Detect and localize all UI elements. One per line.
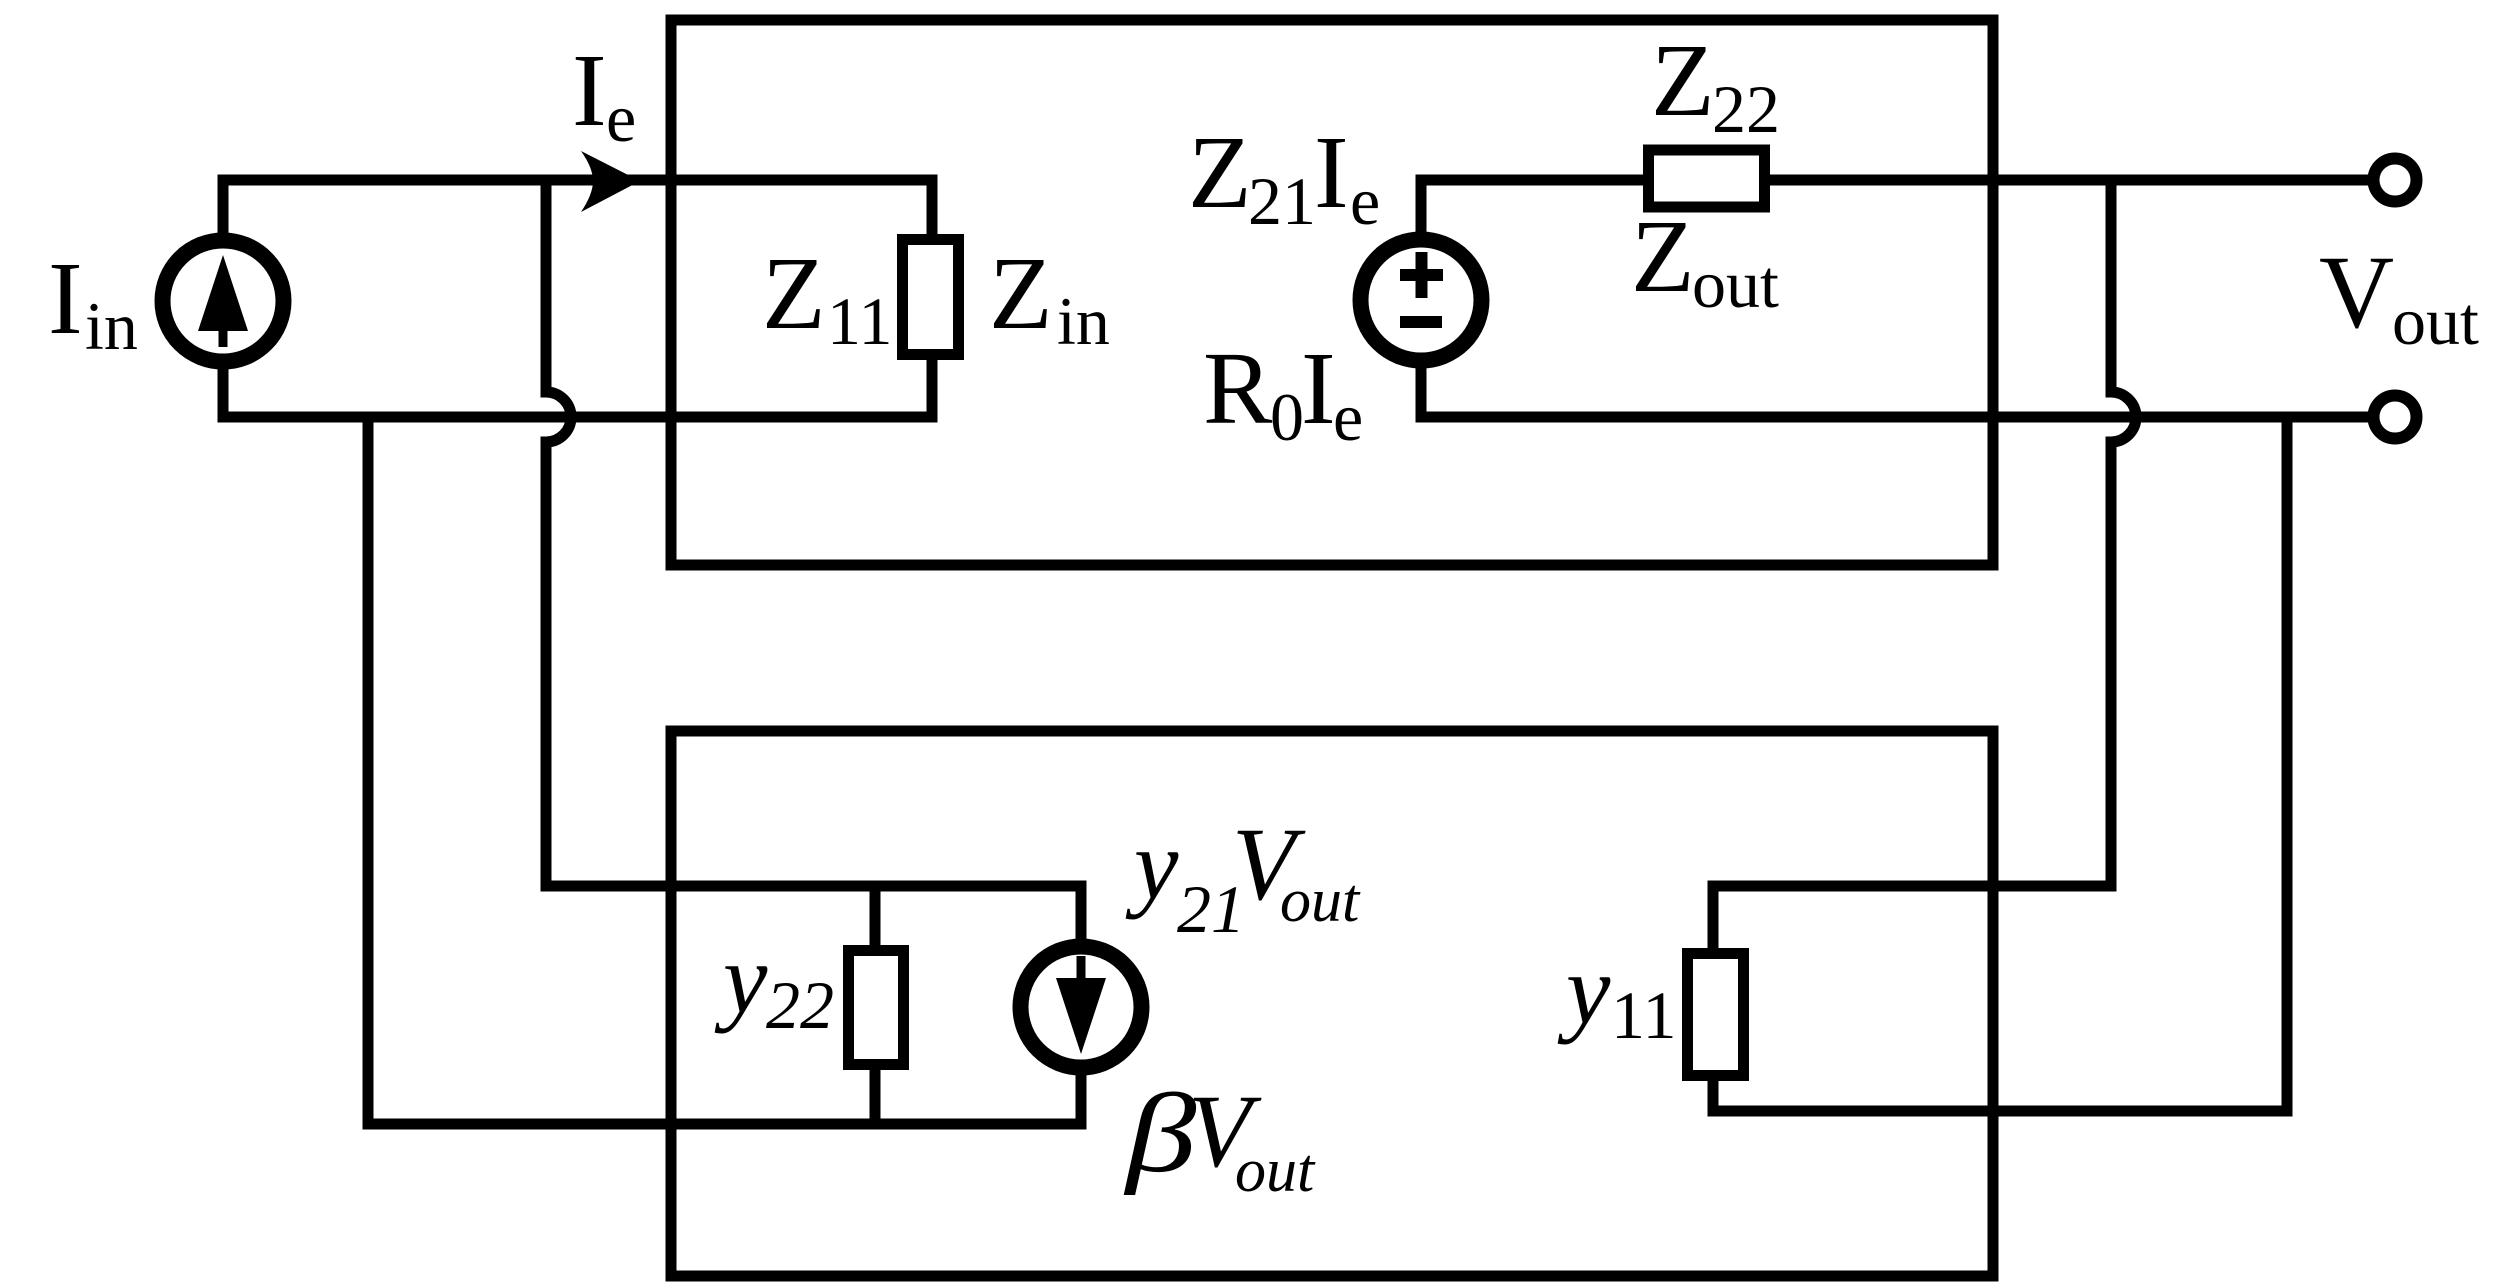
svg-text:e: e xyxy=(1350,163,1380,239)
svg-text:Z: Z xyxy=(1631,199,1695,314)
svg-text:in: in xyxy=(85,288,138,364)
svg-text:e: e xyxy=(606,80,636,156)
svg-text:β: β xyxy=(1123,1070,1197,1195)
svg-text:I: I xyxy=(48,241,83,356)
svg-text:I: I xyxy=(1301,331,1336,446)
svg-text:V: V xyxy=(2319,235,2394,350)
svg-text:e: e xyxy=(1333,379,1363,455)
svg-text:Z: Z xyxy=(989,236,1053,351)
svg-text:in: in xyxy=(1057,283,1110,359)
svg-text:22: 22 xyxy=(766,967,834,1043)
svg-text:I: I xyxy=(572,33,607,148)
svg-text:Z: Z xyxy=(1651,23,1715,138)
svg-text:out: out xyxy=(1692,246,1779,322)
svg-text:out: out xyxy=(2392,283,2479,359)
svg-text:y: y xyxy=(1557,934,1611,1045)
svg-text:Z: Z xyxy=(762,236,826,351)
svg-text:22: 22 xyxy=(1712,71,1780,147)
svg-text:I: I xyxy=(1314,115,1349,230)
svg-text:11: 11 xyxy=(827,283,892,359)
svg-text:21: 21 xyxy=(1248,163,1316,239)
svg-text:out: out xyxy=(1280,867,1361,935)
svg-text:0: 0 xyxy=(1270,379,1304,455)
svg-text:y: y xyxy=(1125,809,1179,920)
svg-text:out: out xyxy=(1235,1137,1316,1205)
svg-text:y: y xyxy=(714,923,768,1034)
svg-text:R: R xyxy=(1203,331,1273,446)
svg-text:Z: Z xyxy=(1188,115,1252,230)
svg-text:11: 11 xyxy=(1611,977,1676,1053)
